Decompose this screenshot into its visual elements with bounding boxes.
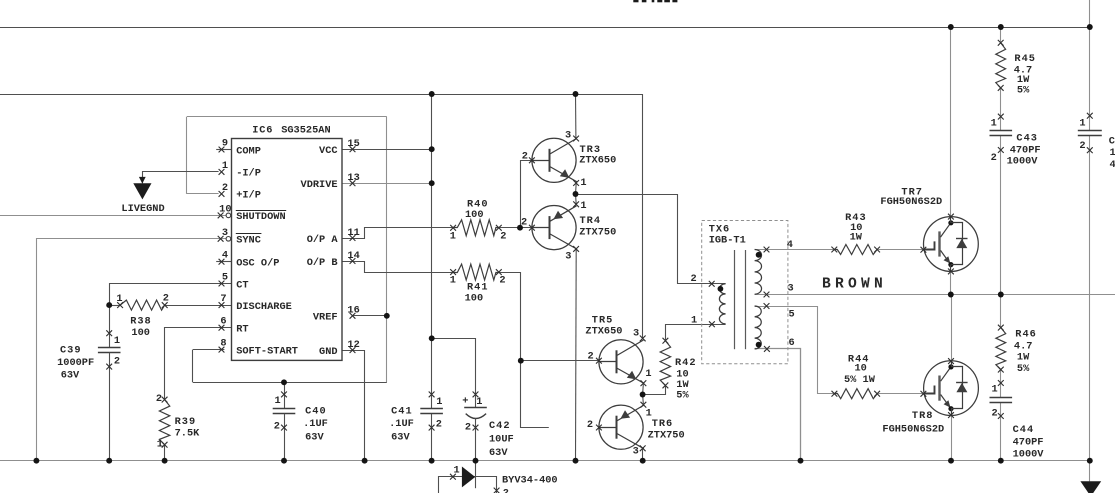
svg-text:2: 2 [163, 293, 169, 305]
svg-text:1: 1 [991, 117, 997, 129]
svg-text:FGH50N6S2D: FGH50N6S2D [882, 423, 944, 435]
svg-text:ZTX650: ZTX650 [585, 325, 622, 337]
svg-text:.1UF: .1UF [389, 418, 414, 430]
svg-text:2: 2 [114, 355, 120, 367]
svg-text:2: 2 [992, 408, 998, 420]
svg-text:1W: 1W [850, 232, 863, 244]
svg-text:10: 10 [1110, 147, 1115, 159]
svg-text:ZTX750: ZTX750 [579, 227, 616, 239]
svg-text:RT: RT [236, 324, 248, 336]
svg-text:FGH50N6S2D: FGH50N6S2D [880, 196, 942, 208]
svg-text:16: 16 [347, 305, 359, 317]
svg-text:TR8: TR8 [912, 410, 934, 422]
svg-text:1: 1 [580, 177, 586, 189]
svg-text:R39: R39 [175, 416, 197, 428]
svg-text:15: 15 [347, 138, 359, 150]
svg-text:1000PF: 1000PF [57, 357, 94, 369]
svg-text:9: 9 [222, 138, 228, 150]
svg-text:63V: 63V [61, 369, 80, 381]
svg-text:3: 3 [222, 227, 228, 239]
svg-text:R38: R38 [130, 316, 152, 328]
svg-text:BROWN: BROWN [822, 277, 887, 293]
svg-text:C40: C40 [305, 405, 327, 417]
svg-text:1: 1 [476, 396, 482, 408]
svg-text:1: 1 [646, 407, 652, 419]
svg-text:4: 4 [222, 250, 228, 262]
svg-text:2: 2 [587, 419, 593, 431]
svg-text:2: 2 [274, 420, 280, 432]
svg-text:5: 5 [789, 308, 795, 320]
svg-text:8: 8 [220, 338, 226, 350]
svg-text:GND: GND [319, 346, 338, 358]
svg-text:C39: C39 [60, 345, 82, 357]
svg-text:13: 13 [347, 172, 359, 184]
svg-text:3: 3 [565, 129, 571, 141]
svg-text:1000V: 1000V [1013, 448, 1045, 460]
svg-text:3: 3 [633, 446, 639, 458]
svg-text:1000V: 1000V [1007, 156, 1039, 168]
svg-text:2: 2 [991, 152, 997, 164]
svg-text:2: 2 [588, 351, 594, 363]
svg-text:470PF: 470PF [1013, 436, 1044, 448]
svg-text:C41: C41 [391, 405, 413, 417]
svg-text:10UF: 10UF [489, 433, 514, 445]
svg-text:VCC: VCC [319, 145, 338, 157]
svg-text:6: 6 [220, 316, 226, 328]
svg-text:4: 4 [787, 239, 793, 251]
svg-text:R41: R41 [467, 281, 489, 293]
svg-text:2: 2 [522, 150, 528, 162]
svg-text:63V: 63V [305, 431, 324, 443]
svg-text:5%: 5% [676, 389, 689, 401]
svg-text:R45: R45 [1014, 53, 1036, 65]
svg-text:O/P A: O/P A [307, 234, 339, 246]
svg-text:+I/P: +I/P [236, 190, 261, 202]
svg-text:5% 1W: 5% 1W [844, 374, 876, 386]
svg-text:2: 2 [436, 419, 442, 431]
svg-text:VREF: VREF [313, 312, 338, 324]
svg-text:5: 5 [222, 272, 228, 284]
svg-text:2: 2 [691, 273, 697, 285]
svg-text:.1UF: .1UF [303, 418, 328, 430]
svg-text:BYV34-400: BYV34-400 [502, 474, 558, 486]
svg-text:3: 3 [565, 251, 571, 263]
svg-text:1: 1 [114, 335, 120, 347]
svg-text:6: 6 [789, 337, 795, 349]
svg-text:2: 2 [521, 217, 527, 229]
svg-text:2: 2 [156, 393, 162, 405]
svg-text:C45: C45 [1109, 136, 1115, 148]
svg-text:1: 1 [645, 368, 651, 380]
svg-text:11: 11 [347, 227, 359, 239]
svg-text:+: + [462, 396, 468, 408]
svg-text:2: 2 [465, 421, 471, 433]
svg-text:1: 1 [1079, 117, 1085, 129]
svg-text:14: 14 [347, 250, 359, 262]
svg-text:1: 1 [450, 275, 456, 287]
svg-text:63V: 63V [391, 431, 410, 443]
svg-text:C43: C43 [1016, 132, 1038, 144]
svg-text:2: 2 [1079, 140, 1085, 152]
svg-text:1: 1 [116, 293, 122, 305]
svg-text:100: 100 [465, 293, 484, 305]
svg-text:1: 1 [992, 384, 998, 396]
svg-text:LIVEGND: LIVEGND [121, 203, 164, 215]
svg-text:100: 100 [131, 327, 150, 339]
svg-text:R46: R46 [1015, 329, 1037, 341]
svg-text:3: 3 [633, 327, 639, 339]
svg-text:1: 1 [436, 396, 442, 408]
svg-text:SYNC: SYNC [236, 235, 261, 247]
svg-text:2: 2 [222, 182, 228, 194]
svg-text:10: 10 [219, 203, 231, 215]
svg-text:40: 40 [1110, 159, 1115, 171]
svg-text:5%: 5% [1017, 85, 1030, 97]
svg-text:IGB-T1: IGB-T1 [709, 234, 746, 246]
svg-text:C44: C44 [1013, 424, 1035, 436]
svg-text:1: 1 [222, 160, 228, 172]
svg-text:2: 2 [503, 488, 509, 493]
svg-text:1W: 1W [1017, 352, 1030, 364]
svg-text:SHUTDOWN: SHUTDOWN [236, 211, 285, 223]
svg-text:TR4: TR4 [580, 215, 602, 227]
svg-text:7.5K: 7.5K [175, 427, 201, 439]
svg-text:1: 1 [450, 230, 456, 242]
svg-text:VDRIVE: VDRIVE [301, 179, 338, 191]
svg-text:1: 1 [454, 464, 460, 476]
svg-text:ZTX750: ZTX750 [648, 429, 685, 441]
svg-text:TR6: TR6 [652, 418, 674, 430]
svg-text:1: 1 [580, 200, 586, 212]
svg-text:5%: 5% [1017, 363, 1030, 375]
svg-text:-I/P: -I/P [236, 168, 261, 180]
svg-text:12: 12 [347, 339, 359, 351]
svg-text:CT: CT [236, 279, 248, 291]
svg-text:2: 2 [499, 275, 505, 287]
svg-text:7: 7 [220, 293, 226, 305]
svg-text:R42: R42 [675, 357, 697, 369]
svg-text:1: 1 [691, 315, 697, 327]
svg-text:OSC O/P: OSC O/P [236, 258, 279, 270]
svg-text:C42: C42 [489, 420, 511, 432]
svg-text:SG3525AN: SG3525AN [281, 125, 330, 137]
svg-text:1: 1 [157, 439, 163, 451]
svg-text:ZTX650: ZTX650 [579, 155, 616, 167]
svg-text:1: 1 [275, 395, 281, 407]
svg-text:10: 10 [855, 363, 867, 375]
svg-text:63V: 63V [489, 447, 508, 459]
svg-text:2: 2 [500, 230, 506, 242]
svg-text:O/P B: O/P B [307, 257, 338, 269]
svg-text:COMP: COMP [236, 145, 261, 157]
svg-text:3: 3 [788, 283, 794, 295]
svg-text:DISCHARGE: DISCHARGE [236, 301, 292, 313]
svg-text:100: 100 [465, 209, 484, 221]
svg-text:IC6: IC6 [252, 125, 273, 137]
svg-text:SOFT-START: SOFT-START [236, 345, 298, 357]
